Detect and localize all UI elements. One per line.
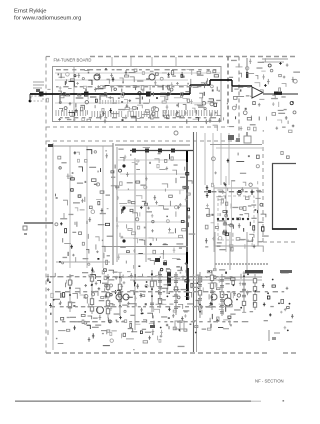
svg-text:for www.radiomuseum.org: for www.radiomuseum.org [14, 16, 81, 22]
svg-text:NF - SECTION: NF - SECTION [255, 379, 284, 384]
svg-text:FM-TUNER BOARD: FM-TUNER BOARD [54, 58, 92, 63]
svg-text:Ernst Rykkje: Ernst Rykkje [14, 9, 47, 15]
